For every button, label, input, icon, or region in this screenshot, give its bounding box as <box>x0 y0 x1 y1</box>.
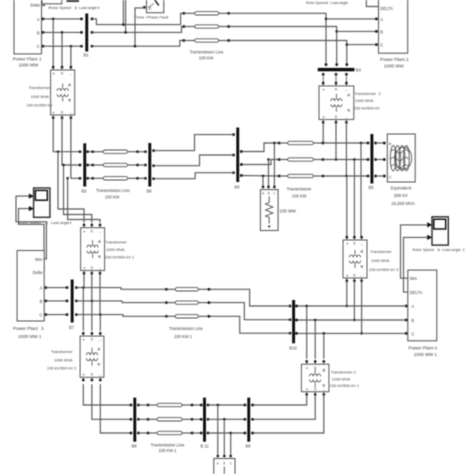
svg-text:15,000 MVA: 15,000 MVA <box>391 201 415 206</box>
svg-text:◂: ◂ <box>322 88 324 92</box>
wire load1 A tap <box>262 176 264 186</box>
bus B5 left ports <box>367 142 370 178</box>
wire load1 C tap <box>273 143 275 186</box>
svg-text:100 KM: 100 KM <box>292 194 307 199</box>
transmission line 2 phase B <box>278 158 325 161</box>
svg-text:◂: ◂ <box>52 110 54 114</box>
wire T4 c drop <box>323 333 325 358</box>
wire line1 C to plant2/B4 <box>229 41 347 65</box>
junction T2 c row3 <box>345 175 348 178</box>
junction T2 b row2 <box>335 158 338 161</box>
bus B7 right ports <box>75 286 78 316</box>
transmission line 2 phase A <box>278 141 325 144</box>
svg-text:1000 MW: 1000 MW <box>19 63 39 68</box>
svg-text:B6: B6 <box>147 188 153 193</box>
bus B8 left ports <box>130 404 133 435</box>
transmission line 2 label <box>287 187 312 199</box>
wire B3 row2 jog to line2 <box>241 160 279 165</box>
bus B3 <box>236 128 239 183</box>
svg-text:C: C <box>37 44 40 49</box>
wire tap B down to T1 <box>61 32 63 67</box>
svg-text:230 kV/500 kV: 230 kV/500 kV <box>27 103 53 108</box>
svg-text:Wm: Wm <box>410 276 418 281</box>
scope4 block (cropped) <box>42 0 62 4</box>
junction B plant2 <box>335 30 338 33</box>
junction T4 c <box>323 332 326 335</box>
transmission line 4 label <box>169 326 203 339</box>
svg-text:1000 MVA: 1000 MVA <box>106 247 125 252</box>
wire line3 A to B6 <box>138 151 146 153</box>
wire row B10-plant4 B <box>297 319 407 321</box>
svg-text:C: C <box>389 174 392 179</box>
power plant 2 DELTA label <box>380 6 393 11</box>
svg-text:DELTA: DELTA <box>380 6 393 11</box>
svg-text:◡: ◡ <box>360 273 363 277</box>
wire T5 c drop <box>99 315 101 331</box>
svg-text:B 11: B 11 <box>201 444 210 449</box>
bus B7 left ports <box>66 286 69 316</box>
load 2 resistor (cropped) <box>223 467 225 474</box>
transmission line 4 phase B <box>165 301 210 304</box>
transmission line 4 phase C <box>165 315 210 318</box>
wire plant3 B to B7 <box>46 300 67 302</box>
wire plant1 C to bus B1 <box>43 45 81 47</box>
junction tap row1 <box>57 150 60 153</box>
svg-text:1000 MVA: 1000 MVA <box>371 258 390 263</box>
wire T3 A drop <box>360 143 362 237</box>
bus B7 <box>71 280 74 323</box>
transformer T2 label <box>354 91 382 111</box>
svg-text:1000 MVA: 1000 MVA <box>31 94 50 99</box>
transmission line 3 label <box>96 188 130 200</box>
wire load2 B tap <box>223 419 225 454</box>
svg-text:Three -Phase Fault: Three -Phase Fault <box>134 15 169 20</box>
wire line4 B to B10 <box>209 303 290 320</box>
svg-text:◂: ◂ <box>82 338 84 342</box>
bus B10 <box>292 300 295 343</box>
transformer T1L label <box>105 240 135 260</box>
svg-text:Transformer: Transformer <box>331 370 353 375</box>
transmission line 3 phase B <box>86 163 139 166</box>
wire row2 to bus B5 <box>323 159 368 161</box>
wire line3 C to B6 <box>138 177 146 179</box>
bus B8 label <box>132 444 138 449</box>
svg-text:B4: B4 <box>356 68 362 73</box>
wire B4 to T2 b <box>335 74 337 83</box>
load 1 block <box>260 190 278 231</box>
svg-text:B8: B8 <box>132 444 138 449</box>
wire plant3 C to B7 <box>46 314 67 316</box>
fault switch symbol <box>149 0 159 8</box>
svg-text:Rotor Speed: Rotor Speed <box>306 1 326 5</box>
load 2 block <box>214 459 235 474</box>
bus B6 right ports <box>152 149 155 180</box>
wire plant4 Wm to scope2 <box>401 225 428 278</box>
wire load2 A tap <box>217 405 219 455</box>
transformer T5 block <box>80 332 104 381</box>
wire T1L a down to row1 <box>83 273 85 287</box>
bus B9 left ports <box>244 404 247 435</box>
wire T1L c down to row3 <box>99 273 101 314</box>
svg-text:Rotor Speed: Rotor Speed <box>49 5 71 10</box>
bus B2 left ports <box>79 150 82 179</box>
svg-text:100 KM 1: 100 KM 1 <box>159 448 178 453</box>
svg-text:Transmission Line: Transmission Line <box>151 442 185 447</box>
bus B6 <box>148 143 151 187</box>
wire plant4 DELTA to scope2 <box>404 237 428 292</box>
svg-text:Data: Data <box>30 2 40 7</box>
transformer T1 block <box>51 66 75 119</box>
wire T2 c down to row3 <box>345 122 347 176</box>
junction T3 a row <box>346 305 349 308</box>
svg-text:◂: ◂ <box>52 72 54 76</box>
svg-text:B7: B7 <box>69 325 75 330</box>
svg-text:◡: ◡ <box>99 229 102 233</box>
scope4 screen (cropped) <box>67 0 80 2</box>
svg-text:230 kV/500 kV 1: 230 kV/500 kV 1 <box>330 383 360 388</box>
wire row5 A <box>208 404 245 406</box>
svg-text:1000 MVA: 1000 MVA <box>332 376 351 381</box>
svg-text:Power Plant: Power Plant <box>409 345 434 350</box>
wire stub from top edge a <box>122 0 124 25</box>
svg-text:Load angle: Load angle <box>442 248 461 252</box>
svg-text:A: A <box>380 17 383 22</box>
junction A plant2 <box>325 18 328 21</box>
power plant 4 Wm label <box>410 276 418 281</box>
svg-text:◡: ◡ <box>360 242 363 246</box>
wire B6 row2 to B3 <box>154 155 234 166</box>
power plant 1 port B <box>37 30 45 35</box>
load 1 port letters <box>262 192 276 196</box>
svg-text:1: 1 <box>39 57 42 62</box>
svg-text:4: 4 <box>435 345 438 350</box>
svg-text:1000 MW 1: 1000 MW 1 <box>414 352 438 357</box>
scope 2 label <box>413 248 465 252</box>
bus B11 <box>203 398 206 442</box>
svg-text:Transformer: Transformer <box>51 349 73 354</box>
svg-text:100 KM 1: 100 KM 1 <box>174 334 193 339</box>
transformer T5 label <box>47 349 77 371</box>
transformer T4 label <box>330 370 360 389</box>
transformer T1L block <box>81 224 105 275</box>
wire T2 a down to row1 <box>322 122 324 143</box>
transmission line 4 phase A <box>165 288 210 291</box>
junction T3 b row <box>353 319 356 322</box>
svg-text:C: C <box>39 313 42 318</box>
svg-text:A: A <box>411 304 414 309</box>
power plant 1 label <box>13 57 42 68</box>
power plant 3 Delta label <box>33 270 43 275</box>
junction load1 B <box>267 158 270 161</box>
wire B5 to equivalent A <box>376 142 385 144</box>
equivalent label <box>391 185 415 206</box>
fault label <box>134 15 169 20</box>
power plant 4 label <box>409 345 438 357</box>
svg-text:Power Plant: Power Plant <box>13 326 38 331</box>
scope3 label (cropped) <box>306 1 348 5</box>
svg-text:100 KM: 100 KM <box>199 55 214 60</box>
power plant 4 port B <box>405 318 415 323</box>
wire B5 to equivalent B <box>376 159 385 161</box>
bus B9 label <box>246 444 252 449</box>
svg-text:230 MW: 230 MW <box>280 208 297 213</box>
junction tap row3 <box>66 177 69 180</box>
svg-text:B: B <box>380 29 383 34</box>
bus B11 right ports <box>207 404 210 435</box>
svg-text:B: B <box>411 318 414 323</box>
transformer T3 label <box>369 249 399 272</box>
wire B7 row3 to line4 <box>76 315 166 317</box>
svg-text:Delta: Delta <box>33 270 43 275</box>
svg-text:Transformer: Transformer <box>370 249 392 254</box>
svg-text:B5: B5 <box>369 185 375 190</box>
junction T5 c row3 <box>99 313 102 316</box>
power plant 3 label <box>13 326 44 339</box>
bus B10 left ports <box>289 305 292 335</box>
svg-text:1000 MW: 1000 MW <box>384 64 404 69</box>
svg-text:230 kV/500 kV 3: 230 kV/500 kV 3 <box>369 267 399 272</box>
wire tap row3 to T1L <box>68 178 100 223</box>
equivalent source block <box>387 134 415 182</box>
wire T4 a drop <box>306 306 308 359</box>
svg-text:◡: ◡ <box>69 110 72 114</box>
junction tap row2 <box>62 164 65 167</box>
wire row5 B <box>208 418 245 420</box>
wire B1 row1 to line1 <box>92 13 184 24</box>
bus B3 label <box>235 184 241 189</box>
power plant 3 port A <box>40 286 48 291</box>
wire tap A down to T1 <box>52 19 54 68</box>
wire row3 to bus B5 <box>323 175 368 177</box>
svg-text:1000 MVA: 1000 MVA <box>54 357 73 362</box>
equivalent port letters <box>389 141 392 180</box>
wire line1 A to plant2/B4 <box>229 13 326 64</box>
fault port C <box>143 6 152 11</box>
wire row B10-plant4 A <box>297 305 407 307</box>
transformer T2 block <box>319 82 354 124</box>
svg-text:B: B <box>40 299 43 304</box>
wire tap row1 to T1L <box>58 152 84 223</box>
svg-text:C: C <box>149 6 152 11</box>
svg-text:◂: ◂ <box>83 266 85 270</box>
svg-text:◂: ◂ <box>82 373 84 377</box>
transmission line 5 phase A <box>138 403 201 406</box>
wire to plant2 DELTA <box>366 0 378 7</box>
junction T4 a <box>305 305 308 308</box>
wire B6 row1 to B3 <box>154 135 234 151</box>
wire B6 row3 to B3 <box>154 173 234 179</box>
svg-text:◂: ◂ <box>346 242 348 246</box>
junction load2 C <box>229 432 232 435</box>
wire fault C down to row3 <box>135 8 145 46</box>
bus B4 top ports <box>325 63 349 66</box>
svg-text:◂: ◂ <box>83 229 85 233</box>
wire line4 C to B10 <box>209 316 290 333</box>
svg-text:Rotor Speed: Rotor Speed <box>413 248 434 252</box>
svg-text:2: 2 <box>406 57 409 62</box>
bus B9 <box>247 398 250 442</box>
wire tap row2 to T1L <box>64 165 92 223</box>
svg-text:B: B <box>37 30 40 35</box>
wire B1 row3 to line1 <box>92 41 184 47</box>
svg-text:Power Plant: Power Plant <box>380 57 405 62</box>
svg-text:◡: ◡ <box>345 115 348 119</box>
load 1 resistor <box>266 197 273 229</box>
wire T3 c down <box>361 281 363 334</box>
svg-text:Load angle: Load angle <box>51 221 70 225</box>
transmission line 3 phase A <box>86 150 139 153</box>
power plant 1 port A <box>37 17 45 22</box>
wire row5 C <box>208 432 245 434</box>
svg-text:100 KM: 100 KM <box>105 194 120 199</box>
wire B5 to equivalent C <box>376 175 385 177</box>
svg-text:B3: B3 <box>235 184 241 189</box>
wire B3 row3 to line2 <box>241 175 279 178</box>
wire T3 a down <box>346 281 348 306</box>
wire T3 B drop <box>353 160 355 238</box>
wire T1L b down to row2 <box>91 273 93 301</box>
svg-text:◡: ◡ <box>322 366 325 370</box>
junction on phase B <box>61 31 64 34</box>
power plant 4 DELTA label <box>410 290 423 295</box>
bus B6 label <box>147 188 153 193</box>
transmission line 1 phase A <box>183 12 231 15</box>
svg-text:◂: ◂ <box>306 387 308 391</box>
junction C plant2 <box>346 43 349 46</box>
wire load1 B tap <box>268 160 270 186</box>
svg-text:DELTA: DELTA <box>410 290 423 295</box>
scope 1 label <box>18 220 72 225</box>
svg-text:C: C <box>411 331 414 336</box>
wire T5 c to B8 <box>100 384 131 433</box>
svg-text:◂: ◂ <box>346 273 348 277</box>
wire T4 b drop <box>314 320 316 359</box>
power plant 4 block <box>408 270 437 341</box>
scope 1 block <box>29 188 50 217</box>
bus B4 label <box>356 68 362 73</box>
bus B3 right ports <box>240 150 243 177</box>
load 1 ports <box>262 186 276 189</box>
svg-text:Equivalent: Equivalent <box>391 185 412 190</box>
svg-text:&: & <box>75 5 78 10</box>
svg-text:Transformer: Transformer <box>29 85 51 90</box>
power plant 3 Wm label <box>35 257 43 262</box>
bus B8 <box>133 398 136 442</box>
bus B1 right ports <box>91 18 94 48</box>
bus B5 <box>370 134 373 184</box>
junction T3 B row2 <box>353 158 356 161</box>
junction load1 A <box>262 175 265 178</box>
svg-text:Transmission Line: Transmission Line <box>169 326 203 331</box>
wire B4 to T2 c <box>345 74 347 83</box>
wire plant3 A to B7 <box>46 287 67 289</box>
svg-text:1000 MVA: 1000 MVA <box>355 98 374 103</box>
wire A to plant2 port <box>326 18 376 20</box>
junction fault on row3 <box>134 45 137 48</box>
wire T4 c to B9 <box>253 395 324 434</box>
wire line1 B to plant2/B4 <box>229 27 337 65</box>
svg-text:B10: B10 <box>289 345 297 350</box>
power plant 1 block <box>14 0 42 54</box>
junction load2 B <box>223 418 226 421</box>
transmission line 1 phase B <box>183 25 231 28</box>
wire T4 b to B9 <box>253 395 316 420</box>
svg-text:Transformer: Transformer <box>355 91 377 96</box>
power plant 2 block <box>379 0 408 53</box>
bus B9 right ports <box>251 404 254 435</box>
transformer T3 block <box>343 236 367 282</box>
wire plant3 Delta to scope1 <box>19 209 45 272</box>
wire row B10-plant4 C <box>297 332 407 334</box>
bus B4 <box>318 68 355 71</box>
junction on phase C <box>70 45 73 48</box>
junction T3 c row <box>360 332 363 335</box>
power plant 4 port A <box>405 304 415 309</box>
svg-text:1000 MW 1: 1000 MW 1 <box>18 334 42 339</box>
transmission line 2 phase C <box>278 174 325 177</box>
svg-text:◂: ◂ <box>322 115 324 119</box>
load 2 ports <box>217 455 233 458</box>
junction on phase A <box>52 18 55 21</box>
svg-text:230 kV/500 kV 1: 230 kV/500 kV 1 <box>105 255 135 260</box>
bus B7 label <box>69 325 75 330</box>
svg-text:Load angle: Load angle <box>331 1 348 5</box>
wire T3 C drop <box>346 176 348 237</box>
svg-text:230 kV/500 kV: 230 kV/500 kV <box>354 106 380 111</box>
svg-text:Transformer: Transformer <box>105 240 127 245</box>
equivalent source glyph <box>390 146 411 171</box>
svg-text:230 kV/500 kV 2: 230 kV/500 kV 2 <box>47 366 77 371</box>
svg-text:500 kV: 500 kV <box>394 193 408 198</box>
svg-text:Transmission: Transmission <box>287 187 312 192</box>
scope4 label <box>49 5 101 10</box>
wire T1 b to bus B2 <box>62 118 80 165</box>
transmission line 1 phase C <box>183 39 231 42</box>
bus B1 label <box>84 53 90 58</box>
junction T4 b <box>314 319 317 322</box>
svg-text:◂: ◂ <box>306 366 308 370</box>
wire row1 to bus B5 <box>323 142 368 144</box>
three-phase fault block <box>147 0 164 13</box>
wire load2 C tap <box>230 433 232 455</box>
wire B4 to T2 a <box>322 74 324 83</box>
bus B1 <box>85 14 88 52</box>
wire T5 b to B8 <box>92 384 131 419</box>
power plant 4 port C <box>405 331 415 336</box>
junction load1 C <box>273 142 276 145</box>
wire plant1 B to bus B1 <box>43 31 81 33</box>
scope 2 block <box>427 217 448 245</box>
svg-text:B9: B9 <box>246 444 252 449</box>
transformer T4 block <box>301 360 329 396</box>
wire T5 a to B8 <box>83 384 131 405</box>
power plant 2 label <box>380 57 409 69</box>
wire T3 b down <box>353 281 355 320</box>
wire plant1 A to bus B1 <box>43 18 81 20</box>
junction load2 A <box>217 404 220 407</box>
bus B8 right ports <box>137 404 140 435</box>
equivalent ports <box>383 142 386 178</box>
bus B5 label <box>369 185 375 190</box>
wire T1 c to bus B2 <box>71 118 80 179</box>
load 2 port letters <box>217 461 233 465</box>
bus B11 left ports <box>200 404 203 435</box>
bus B10 right ports <box>295 305 298 335</box>
wire T4 a to B9 <box>253 395 307 406</box>
junction T3 A row1 <box>360 142 363 145</box>
wire T1 a to bus B2 <box>53 118 80 152</box>
svg-text:B1: B1 <box>84 53 90 58</box>
